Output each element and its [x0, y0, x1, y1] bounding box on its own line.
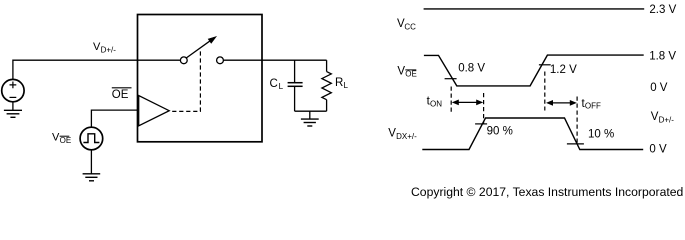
- wire pulse source to ground: [90, 150, 92, 174]
- svg-text:0 V: 0 V: [650, 82, 668, 94]
- dashed line at 0.8V cross: [450, 87, 452, 114]
- DUT box: [138, 15, 263, 142]
- voltage source V1: [2, 79, 24, 101]
- label VCC: [397, 18, 416, 31]
- svg-text:V: V: [388, 128, 396, 140]
- pulse source VOE: [80, 127, 103, 150]
- wire V1 bottom to ground: [12, 102, 14, 110]
- 90% crossing tick: [475, 123, 487, 125]
- wire VOE source to box: [91, 110, 137, 127]
- wire to ground G3: [309, 111, 311, 119]
- svg-text:L: L: [279, 82, 284, 91]
- label VD+/-: [93, 41, 116, 54]
- svg-text:10 %: 10 %: [588, 128, 614, 140]
- VOE waveform: [424, 55, 644, 86]
- svg-text:ON: ON: [430, 100, 442, 109]
- 1.2 V crossing tick: [539, 64, 551, 66]
- dashed line at 1.2V cross: [544, 72, 546, 111]
- label VOE (overlined OE): [52, 132, 71, 145]
- svg-text:C: C: [270, 78, 278, 90]
- svg-text:CC: CC: [404, 22, 416, 31]
- 0.8 V crossing tick: [445, 78, 457, 80]
- ground G2: [83, 174, 101, 181]
- label VOE (waveform, overlined OE): [397, 66, 416, 79]
- dashed control net: [170, 51, 200, 111]
- label VDX+/-: [388, 128, 417, 141]
- label tOFF: [582, 98, 602, 111]
- 10% crossing tick: [567, 143, 584, 145]
- label VD+/- (right): [651, 111, 674, 124]
- label tON: [427, 96, 443, 109]
- svg-text:Copyright © 2017, Texas Instru: Copyright © 2017, Texas Instruments Inco…: [411, 185, 683, 199]
- tON arrow: [452, 100, 483, 106]
- svg-text:V: V: [651, 111, 659, 123]
- ground G1: [4, 110, 22, 117]
- svg-text:90 %: 90 %: [487, 125, 513, 137]
- VDX waveform: [422, 118, 643, 150]
- svg-text:1.2 V: 1.2 V: [550, 64, 577, 76]
- switch arrowhead: [208, 37, 216, 44]
- svg-text:0 V: 0 V: [649, 143, 667, 155]
- dashed line at 10% point: [576, 97, 578, 144]
- svg-text:L: L: [344, 81, 349, 90]
- label CL: [270, 78, 284, 91]
- label OE (overlined): [112, 88, 132, 101]
- svg-text:DX+/-: DX+/-: [396, 132, 417, 141]
- wire V1 top to switch: [13, 60, 181, 79]
- svg-text:R: R: [335, 77, 343, 89]
- dashed line at 90% point: [483, 93, 485, 124]
- svg-text:OE: OE: [405, 70, 417, 79]
- VCC level line: [424, 8, 645, 10]
- switch S1: [180, 40, 223, 63]
- svg-text:D+/-: D+/-: [101, 45, 117, 54]
- svg-text:D+/-: D+/-: [659, 115, 675, 124]
- output wire: [224, 59, 327, 61]
- svg-text:2.3 V: 2.3 V: [649, 4, 676, 16]
- svg-text:OE: OE: [60, 136, 72, 145]
- buffer U1: [139, 96, 170, 126]
- svg-text:1.8 V: 1.8 V: [649, 51, 676, 63]
- ground G3: [301, 119, 319, 126]
- bottom wire CL-RL: [295, 110, 327, 112]
- svg-text:OE: OE: [112, 89, 129, 101]
- svg-text:OFF: OFF: [585, 102, 601, 111]
- svg-text:V: V: [397, 66, 405, 78]
- svg-text:0.8 V: 0.8 V: [458, 63, 485, 75]
- label RL: [335, 77, 349, 90]
- tOFF arrow: [546, 100, 577, 106]
- capacitor CL: [288, 60, 303, 111]
- resistor RL: [322, 60, 331, 111]
